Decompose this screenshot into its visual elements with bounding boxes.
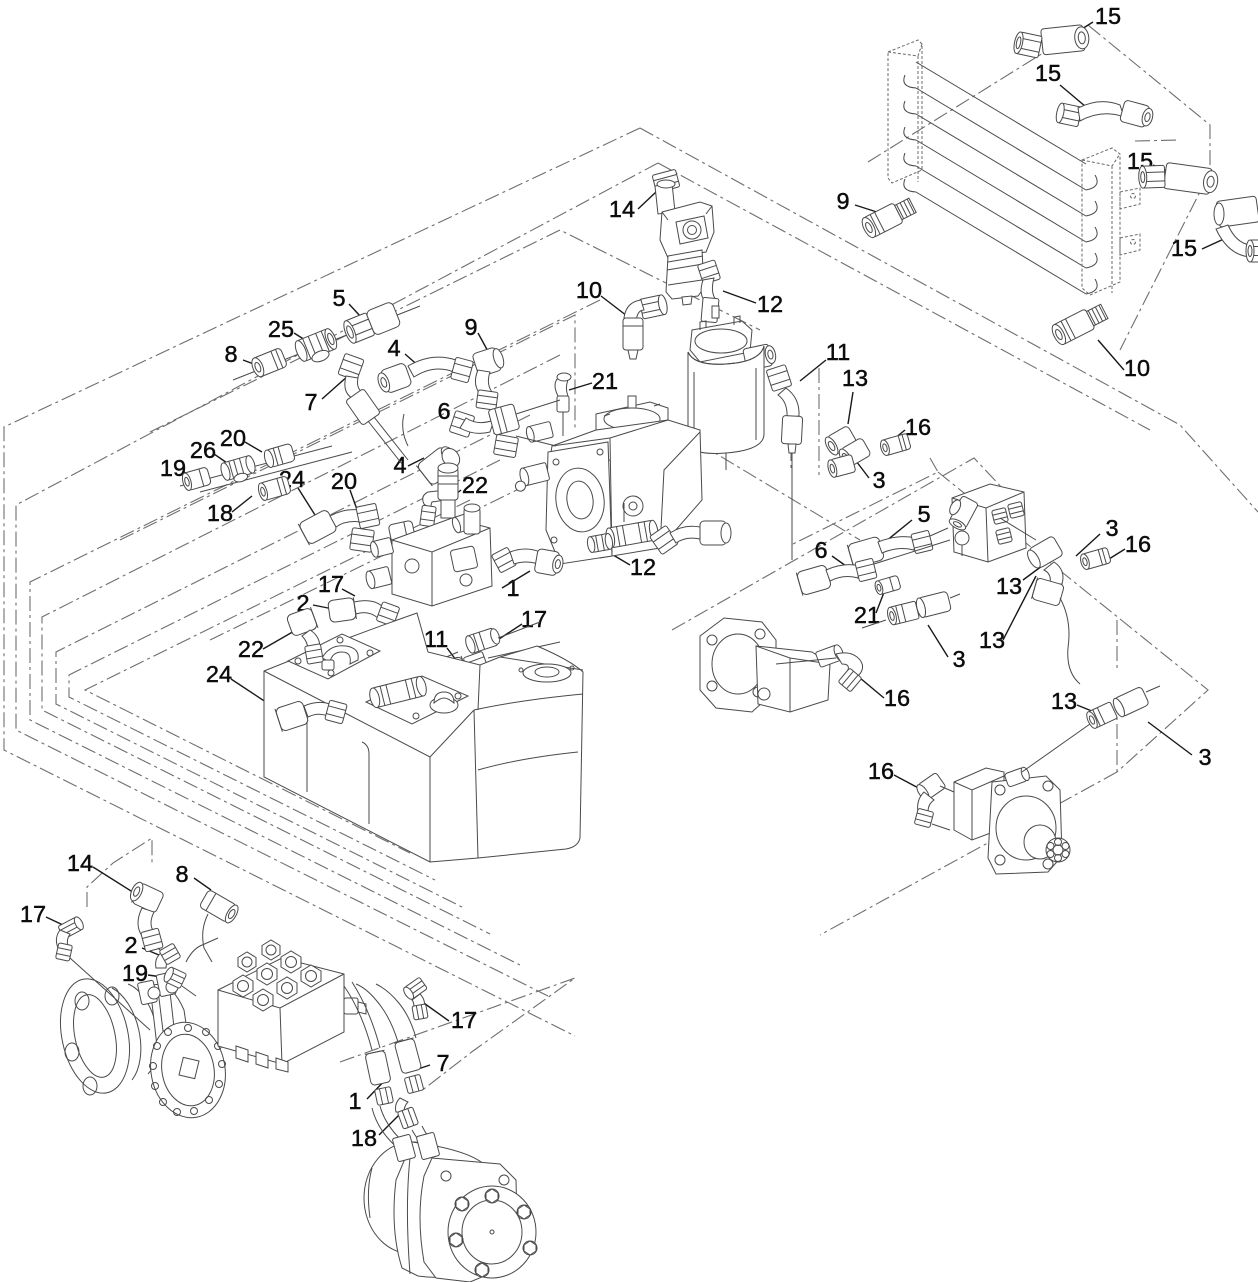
svg-text:10: 10 <box>576 277 602 303</box>
face plate <box>546 442 612 564</box>
svg-text:14: 14 <box>67 850 93 876</box>
small valve on top right <box>451 511 478 533</box>
svg-text:21: 21 <box>854 602 880 628</box>
motor 1 right <box>700 618 863 712</box>
shaft port <box>815 644 845 668</box>
fitting 19 <box>181 467 212 492</box>
inner frame center <box>210 420 860 640</box>
body <box>954 768 1004 840</box>
frame around tee group <box>120 315 575 540</box>
vertical near motor2 <box>1116 620 1118 772</box>
svg-text:9: 9 <box>464 314 477 340</box>
fitting 16 top <box>879 433 911 456</box>
elbow 10 center <box>623 294 669 359</box>
side port right <box>743 343 778 371</box>
valve block center-left <box>364 463 492 606</box>
svg-text:17: 17 <box>451 1007 477 1033</box>
svg-text:15: 15 <box>1095 3 1121 29</box>
fitting 5 <box>341 301 401 346</box>
tee 26 <box>219 455 258 486</box>
svg-text:6: 6 <box>814 537 827 563</box>
hose 24/20 pair <box>298 503 415 552</box>
svg-text:22: 22 <box>238 636 264 662</box>
svg-text:14: 14 <box>609 196 635 222</box>
hub bolts <box>449 1189 537 1277</box>
svg-text:8: 8 <box>175 861 188 887</box>
top pair line B <box>658 163 1150 430</box>
elbow 14 top <box>652 169 680 214</box>
frame right motors big <box>938 472 1208 772</box>
fitting 9 right <box>859 195 917 239</box>
filter canister <box>666 250 704 305</box>
frame around 5-25-8 group <box>150 230 760 432</box>
fitting 17 center <box>464 627 502 655</box>
right bracket post <box>1082 148 1120 295</box>
svg-text:20: 20 <box>331 468 357 494</box>
line through 11 down <box>818 368 820 475</box>
inline fitting 7 bottom <box>394 1038 424 1094</box>
face circle <box>996 796 1056 860</box>
motor 2 lower right <box>914 766 1070 874</box>
bracket tab 2 <box>1120 234 1140 255</box>
svg-text:12: 12 <box>757 291 783 317</box>
svg-text:7: 7 <box>304 389 317 415</box>
hose 2 center <box>328 597 400 626</box>
svg-text:6: 6 <box>437 398 450 424</box>
elbow 14 bottom <box>127 880 168 958</box>
hose 6 right <box>796 540 950 596</box>
top port fittings <box>137 972 178 1005</box>
filter head <box>660 202 714 258</box>
top plate 2 with tee <box>366 676 468 724</box>
cooler frame top <box>868 25 1210 350</box>
svg-text:5: 5 <box>332 285 345 311</box>
flange plate <box>988 776 1062 874</box>
tee fitting on tank <box>368 675 428 708</box>
elbow 16 <box>836 653 863 676</box>
bottom ports <box>236 1046 248 1062</box>
mid discs <box>112 982 172 1080</box>
top plate 1 <box>288 634 380 679</box>
elbow 22 left <box>286 607 323 664</box>
svg-text:16: 16 <box>1125 531 1151 557</box>
hydraulic tank <box>264 613 583 862</box>
fitting 15 elbow top <box>1010 24 1090 61</box>
svg-text:3: 3 <box>872 467 885 493</box>
rear flange disc <box>51 972 140 1099</box>
reservoir assembly <box>688 306 778 470</box>
svg-text:3: 3 <box>952 646 965 672</box>
top fitting <box>1004 766 1031 787</box>
hose 15 second <box>1055 100 1155 129</box>
motor 3 bottom-left (double flange) <box>51 972 233 1124</box>
fitting 18 <box>257 476 292 502</box>
hose 12 bottom <box>649 521 731 555</box>
tee 25 <box>293 327 342 368</box>
right side fitting <box>344 998 366 1014</box>
elbow 24 left <box>275 700 347 732</box>
left chevron 3 <box>30 300 600 965</box>
elbow 15 fourth <box>1214 196 1258 262</box>
svg-text:15: 15 <box>1171 235 1197 261</box>
fitting 23 center <box>586 533 613 553</box>
bottom tee fitting <box>605 503 660 548</box>
svg-text:3: 3 <box>1198 744 1211 770</box>
svg-text:16: 16 <box>905 414 931 440</box>
top hose ports <box>392 1134 416 1162</box>
rear body <box>364 1142 460 1254</box>
svg-text:12: 12 <box>630 554 656 580</box>
left chevron 7 <box>85 500 470 853</box>
left ports <box>369 537 394 558</box>
bottom motor frame <box>340 978 575 1092</box>
hose 5 right <box>847 528 948 568</box>
svg-text:22: 22 <box>462 472 488 498</box>
star coupling <box>1046 838 1070 862</box>
hex ports right <box>992 508 1009 525</box>
13 elbow trio top <box>823 425 872 478</box>
svg-text:17: 17 <box>20 901 46 927</box>
svg-text:13: 13 <box>996 573 1022 599</box>
frame around motor1 <box>672 458 1006 630</box>
svg-text:3: 3 <box>1105 515 1118 541</box>
main body <box>548 420 702 558</box>
svg-text:18: 18 <box>351 1125 377 1151</box>
mounting flange <box>700 618 776 712</box>
cooler tubes <box>904 62 1097 294</box>
left chevron 1 <box>4 128 640 1036</box>
cooler frame kink <box>1135 140 1180 141</box>
fitting 21 small top <box>555 373 571 436</box>
fitting 22 center <box>420 489 453 540</box>
front flange disc <box>143 1016 233 1123</box>
svg-text:13: 13 <box>842 365 868 391</box>
svg-text:25: 25 <box>268 316 294 342</box>
svg-text:13: 13 <box>1051 688 1077 714</box>
svg-text:8: 8 <box>224 341 237 367</box>
thin line through tee group <box>180 446 352 492</box>
pump center <box>512 373 702 564</box>
inline fitting 1 bottom <box>365 1050 394 1105</box>
svg-text:13: 13 <box>979 627 1005 653</box>
solenoid vertical <box>438 463 458 518</box>
hose 11 right <box>766 364 803 560</box>
vertical right of valve <box>790 420 792 472</box>
svg-text:10: 10 <box>1124 355 1150 381</box>
svg-text:2: 2 <box>124 932 137 958</box>
inline 13-3 lower right <box>1022 686 1160 772</box>
main cylinder <box>688 346 764 453</box>
fitting 19 bottom <box>162 938 218 996</box>
small features on body <box>405 559 419 573</box>
fitting 10 right <box>1049 302 1109 347</box>
rib body <box>150 984 196 1096</box>
fitting 8 bottom <box>199 889 241 962</box>
head <box>690 321 752 362</box>
hose 11 long (near tank) <box>402 642 560 690</box>
svg-text:26: 26 <box>190 437 216 463</box>
elbow 17 center bottom <box>402 977 428 1020</box>
left chevron 6 <box>69 460 500 880</box>
small line bottom <box>725 453 727 470</box>
flange ring <box>420 1158 518 1282</box>
hose 6 <box>449 400 560 458</box>
left chevron 4 <box>42 355 560 934</box>
manifold bottom-left <box>218 940 366 1072</box>
second solenoid <box>464 504 480 534</box>
fitting 15 third <box>1135 159 1219 199</box>
hose 4 top <box>375 357 474 395</box>
elbow 1 center <box>491 547 564 577</box>
fitting 20 upper <box>263 443 296 468</box>
drum <box>394 1142 490 1277</box>
left bracket post <box>888 40 922 183</box>
svg-text:20: 20 <box>220 425 246 451</box>
hub <box>448 1186 536 1278</box>
bracket tab 1 <box>1120 188 1140 209</box>
motor 4 bottom-center <box>364 1132 537 1282</box>
svg-text:7: 7 <box>436 1050 449 1076</box>
svg-text:11: 11 <box>826 339 850 365</box>
left chevron 2 <box>16 163 658 996</box>
hex caps top (two rows) <box>233 940 321 1011</box>
hose 12 upper <box>697 260 720 323</box>
bottom-left corner frames <box>87 838 152 907</box>
hose 7 <box>338 353 408 464</box>
elbow 2 bottom <box>156 943 181 968</box>
filler neck <box>523 664 571 682</box>
inline 13-3 center <box>862 591 960 628</box>
tee on left <box>943 493 979 532</box>
drain port <box>758 688 770 700</box>
thin hose line through 8-25-5 <box>233 306 420 380</box>
svg-text:5: 5 <box>917 501 930 527</box>
breather <box>430 692 458 713</box>
fitting 8 <box>249 347 287 378</box>
hose 4 lower sleeve <box>416 441 464 486</box>
svg-text:17: 17 <box>318 571 344 597</box>
fitting 23 left (near tank) <box>344 636 380 665</box>
svg-text:16: 16 <box>868 758 894 784</box>
svg-text:24: 24 <box>206 661 232 687</box>
svg-text:9: 9 <box>836 188 849 214</box>
top pair line A <box>640 128 1258 512</box>
fitting 21 right <box>874 575 901 595</box>
svg-text:1: 1 <box>348 1088 361 1114</box>
body <box>756 646 830 712</box>
top cover <box>596 402 668 436</box>
svg-text:11: 11 <box>424 626 448 652</box>
svg-text:21: 21 <box>592 368 618 394</box>
svg-text:16: 16 <box>884 685 910 711</box>
small valve block right <box>943 484 1026 562</box>
body <box>392 518 492 606</box>
left chevron 5 <box>56 415 530 907</box>
elbow 9 <box>472 345 507 410</box>
left ports <box>525 421 554 443</box>
elbow 17 left bottom <box>55 915 150 1030</box>
svg-text:18: 18 <box>207 500 233 526</box>
svg-text:4: 4 <box>387 335 400 361</box>
S elbow 13 right <box>1000 518 1080 684</box>
front grooves <box>300 710 369 824</box>
hoses from manifold to motor4 <box>344 982 380 1050</box>
frame right of pump <box>791 458 938 545</box>
elbow 18 bottom <box>396 1098 419 1129</box>
elbow 16 left <box>914 772 954 830</box>
fitting 16 far right <box>1079 547 1111 570</box>
motor2 lower left diag <box>820 772 1117 935</box>
svg-text:15: 15 <box>1035 60 1061 86</box>
oil cooler <box>888 40 1140 295</box>
